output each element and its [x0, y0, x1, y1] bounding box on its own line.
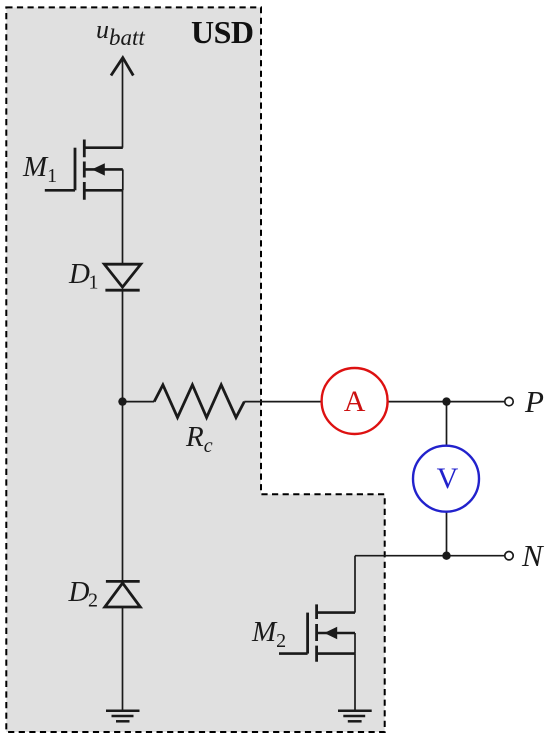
- svg-text:P: P: [524, 384, 544, 419]
- svg-text:USD: USD: [191, 14, 254, 50]
- svg-text:A: A: [344, 385, 366, 418]
- svg-text:N: N: [521, 538, 545, 573]
- svg-text:V: V: [437, 462, 459, 495]
